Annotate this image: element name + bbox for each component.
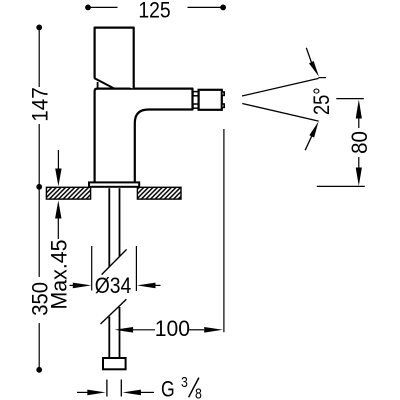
supply pipe (lower section) [109,307,119,358]
aerator bridge top [193,92,199,96]
svg-text:8: 8 [195,385,202,400]
countertop right hatched section [137,187,181,199]
svg-text:100: 100 [155,316,190,342]
aerator nub top [222,92,224,95]
extension line from aerator down [223,129,225,332]
faucet body and spout outline [95,89,193,182]
svg-text:125: 125 [138,0,170,23]
connection nut [103,358,126,369]
dimension Max.45 [46,150,71,309]
supply pipe (upper section) [109,188,119,266]
spray angle 25 deg [242,48,334,150]
aerator nub bottom [222,104,224,107]
svg-text:Ø34: Ø34 [95,274,132,298]
dimension 125 top [85,0,226,23]
svg-text:25°: 25° [311,87,335,115]
svg-text:G: G [161,378,175,400]
svg-text:147: 147 [28,87,53,122]
break slash 2 [101,299,127,324]
svg-text:80: 80 [347,131,372,154]
countertop left hatched section [46,187,90,199]
svg-text:Max.45: Max.45 [46,240,71,310]
break slash 1 [102,249,127,274]
dimension 350 left [29,187,53,373]
aerator body [199,90,222,110]
dimension 147 left [28,25,53,190]
dimension 80 right [317,99,372,187]
dimension O34 [70,246,161,298]
svg-text:3: 3 [181,374,188,390]
base flange [89,182,139,186]
dimension 100 [115,316,223,342]
handle lever [94,28,133,89]
thread size G3/8 [77,374,202,400]
aerator bridge bottom [193,104,199,108]
